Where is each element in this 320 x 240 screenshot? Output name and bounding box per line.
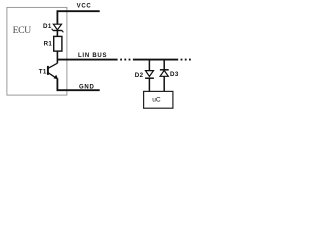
svg-text:D1: D1 [43,23,52,30]
svg-text:uC: uC [152,96,161,103]
svg-text:ECU: ECU [13,25,32,36]
svg-text:R1: R1 [44,40,53,47]
wire D2 branch from bus [148,60,150,70]
wire D1 to R1 [56,31,58,37]
svg-text:T1: T1 [39,69,47,76]
wire R1 to bus junction and T1 collector [56,51,58,63]
wire LIN bus rail [57,59,117,61]
svg-text:D2: D2 [135,72,144,79]
wire D3 branch from bus [163,60,165,70]
svg-text:VCC: VCC [77,4,92,10]
svg-text:GND: GND [79,85,95,91]
wire bus dashes left [120,59,130,61]
diode D2 [145,71,154,79]
transistor T1 (NPN) [48,63,58,79]
svg-text:LIN BUS: LIN BUS [78,53,107,59]
uC box [144,91,173,108]
svg-text:D3: D3 [170,71,179,78]
diode D1 (zener) [52,24,64,32]
diode D3 [160,70,169,77]
ECU box [7,7,67,95]
resistor R1 [54,36,62,51]
wire emitter to GND rail [57,79,99,91]
wire VCC rail [57,11,99,24]
wire D3 to uC [163,76,165,91]
wire bus rail mid [133,59,178,61]
wire D2 to uC [148,78,150,91]
wire bus dashes right [181,59,191,61]
